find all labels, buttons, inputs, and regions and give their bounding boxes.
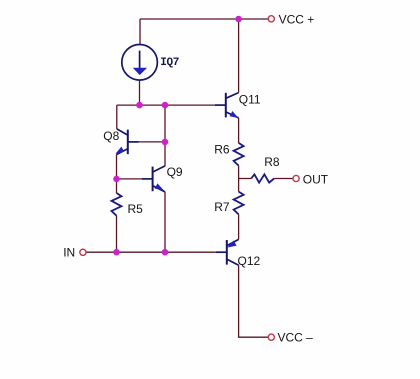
svg-text:Q12: Q12 <box>238 254 261 268</box>
svg-text:Q9: Q9 <box>167 165 183 179</box>
svg-text:R8: R8 <box>264 155 280 169</box>
svg-text:VCC +: VCC + <box>279 13 315 27</box>
svg-text:VCC –: VCC – <box>278 331 314 345</box>
svg-text:R5: R5 <box>128 202 144 216</box>
svg-text:Q11: Q11 <box>239 92 261 106</box>
svg-text:OUT: OUT <box>303 172 329 186</box>
svg-text:R6: R6 <box>214 143 230 157</box>
svg-text:IQ7: IQ7 <box>160 57 179 69</box>
svg-text:Q8: Q8 <box>103 129 119 143</box>
svg-text:IN: IN <box>63 245 75 259</box>
svg-text:R7: R7 <box>214 200 230 214</box>
